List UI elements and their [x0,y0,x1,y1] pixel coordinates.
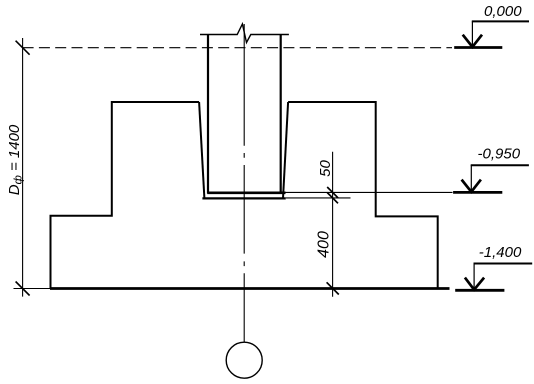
50 / 400 dimension line (vertical) [332,152,334,297]
foundation bottom thin left extension [14,288,51,290]
svg-text:50: 50 [317,160,334,177]
socket pocket right wall [283,102,288,198]
svg-text:400: 400 [316,231,333,258]
Df dimension line (left vertical) [22,38,24,297]
socket pocket left wall [199,102,204,198]
column bottom [207,191,285,194]
svg-text:-0,950: -0,950 [478,146,521,163]
Df dimension tick top [16,41,30,55]
elevation mark -0,950 arrow [462,180,481,192]
elevation mark 0,000 leader vertical [471,21,473,46]
position mark circle [226,342,262,378]
column centerline (dash-dot axis) [243,24,245,342]
elevation mark -1,400 arrow [465,278,484,290]
elevation mark -1,400 leader horizontal [474,263,533,265]
foundation outline right half [288,102,438,289]
dimension tick at column base [327,187,338,198]
elevation mark -1,400 leader vertical [473,264,475,290]
elevation mark -0,950 base line [453,191,502,194]
foundation outline left half [51,102,200,289]
svg-text:Dф = 1400: Dф = 1400 [6,124,25,195]
elevation mark 0,000 base line [454,46,502,49]
column break line (zigzag) [200,24,289,43]
foundation bottom line [50,287,450,290]
socket pocket floor [202,197,285,199]
svg-text:0,000: 0,000 [484,3,522,20]
elevation mark -0,950 leader horizontal [471,164,529,166]
dimension tick at pocket floor [327,193,338,204]
dimension tick at foundation bottom [327,282,339,294]
Df dimension tick bottom [16,282,30,296]
svg-text:-1,400: -1,400 [479,244,522,261]
elevation mark -0,950 leader vertical [470,165,472,191]
ground level dashed line at 0,000 [23,47,452,49]
elevation mark 0,000 arrow [463,35,482,47]
extension line at pocket floor level [286,197,351,199]
column right edge [280,35,282,194]
elevation mark 0,000 leader horizontal [472,20,529,22]
elevation mark -1,400 base line [455,289,504,292]
extension line at column base level (to -0,950 mark) [286,191,453,193]
column left edge [207,35,209,194]
